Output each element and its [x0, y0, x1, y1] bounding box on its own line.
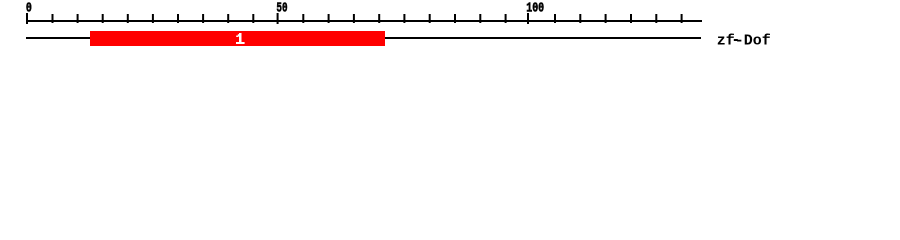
svg-text:100: 100 [526, 1, 544, 17]
minor tick 45 [252, 14, 254, 23]
major tick 100 [527, 13, 529, 24]
minor tick 105 [554, 14, 556, 23]
minor tick 120 [630, 14, 632, 23]
minor tick 130 [681, 14, 683, 23]
minor tick 95 [505, 14, 507, 23]
minor tick 90 [479, 14, 481, 23]
svg-text:0: 0 [26, 1, 32, 17]
major tick 50 [277, 13, 279, 24]
minor tick 70 [378, 14, 380, 23]
minor tick 10 [77, 14, 79, 23]
minor tick 75 [403, 14, 405, 23]
minor tick 35 [202, 14, 204, 23]
minor tick 125 [655, 14, 657, 23]
minor tick 40 [227, 14, 229, 23]
domain number 1 [236, 33, 245, 44]
svg-text:50: 50 [276, 1, 287, 17]
minor tick 15 [102, 14, 104, 23]
ruler baseline [26, 20, 702, 22]
minor tick 80 [429, 14, 431, 23]
minor tick 25 [152, 14, 154, 23]
sequence line [26, 37, 701, 39]
minor tick 5 [52, 14, 54, 23]
minor tick 55 [302, 14, 304, 23]
domain name hyphen (bitmap-width) [734, 39, 738, 41]
minor tick 20 [127, 14, 129, 23]
minor tick 115 [605, 14, 607, 23]
major tick 0 [26, 13, 28, 24]
minor tick 110 [579, 14, 581, 23]
svg-text:zf-Dof: zf-Dof [717, 32, 771, 49]
minor tick 60 [328, 14, 330, 23]
domain box 1 (zf-Dof) [90, 31, 385, 46]
minor tick 85 [454, 14, 456, 23]
minor tick 65 [353, 14, 355, 23]
minor tick 30 [177, 14, 179, 23]
